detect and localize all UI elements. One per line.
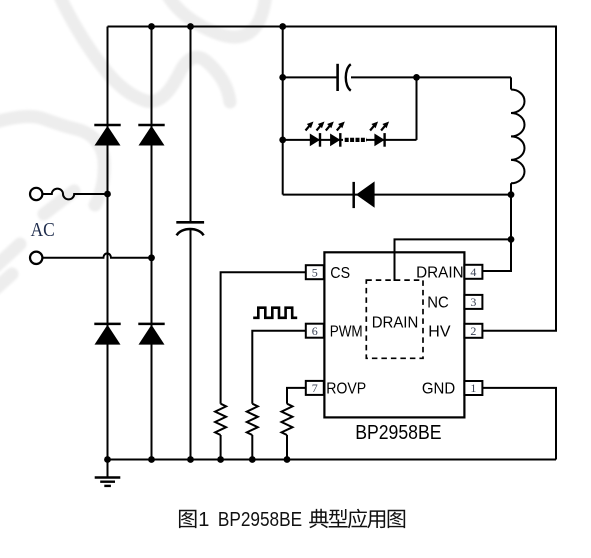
svg-text:ROVP: ROVP [326, 381, 366, 398]
svg-text:HV: HV [428, 324, 451, 341]
svg-text:PWM: PWM [330, 324, 363, 341]
svg-text:BP2958BE: BP2958BE [355, 422, 441, 444]
svg-text:6: 6 [312, 324, 318, 338]
svg-text:AC: AC [31, 219, 55, 241]
svg-text:1: 1 [198, 509, 209, 531]
svg-text:BP2958BE: BP2958BE [218, 509, 302, 531]
svg-text:DRAIN: DRAIN [372, 314, 419, 331]
svg-text:4: 4 [470, 265, 476, 279]
svg-text:7: 7 [312, 381, 318, 395]
svg-text:CS: CS [330, 265, 350, 282]
svg-text:NC: NC [427, 295, 449, 312]
svg-text:GND: GND [422, 381, 455, 398]
svg-text:5: 5 [312, 265, 318, 279]
svg-text:3: 3 [470, 295, 476, 309]
svg-text:1: 1 [470, 381, 476, 395]
svg-text:2: 2 [470, 324, 476, 338]
svg-text:DRAIN: DRAIN [416, 265, 464, 282]
